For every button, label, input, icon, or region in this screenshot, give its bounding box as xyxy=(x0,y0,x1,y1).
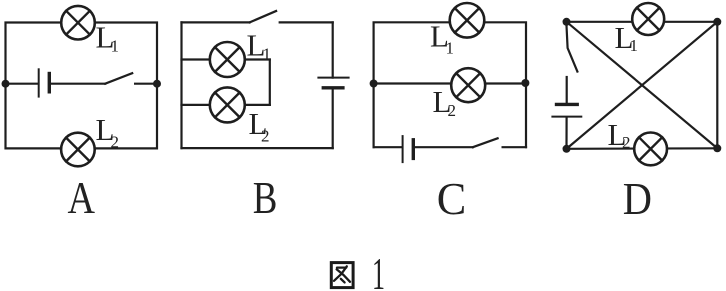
wire: C battery to switch xyxy=(415,146,473,148)
wire: B lower lamp branch xyxy=(182,104,270,106)
switch S (circuit B, open) xyxy=(250,11,333,22)
wire: circuit C outer rectangle top/left/right xyxy=(374,22,526,147)
battery GB (circuit C) xyxy=(403,136,414,162)
wire: B right side upper xyxy=(332,22,334,77)
node: D top-right junction xyxy=(713,18,721,26)
wire: D battery top lead xyxy=(566,77,568,104)
lamp L2 (circuit B) xyxy=(210,87,245,122)
svg-text:1: 1 xyxy=(263,45,272,64)
label L2 (circuit B) xyxy=(249,106,270,146)
switch S (circuit D, open) xyxy=(566,24,577,72)
label L2 (circuit A) xyxy=(96,112,120,152)
svg-text:C: C xyxy=(437,173,467,224)
label L2 (circuit C) xyxy=(433,84,457,120)
svg-text:2: 2 xyxy=(111,133,120,152)
battery GB (circuit A) xyxy=(39,69,50,96)
wire: circuit B left side xyxy=(180,22,182,148)
wire: D right side xyxy=(716,22,718,149)
svg-text:B: B xyxy=(253,172,278,223)
node: A left junction xyxy=(2,80,10,88)
wire: C bottom left lead xyxy=(374,146,402,148)
battery GB (circuit D) xyxy=(552,104,581,116)
svg-text:1: 1 xyxy=(446,38,455,57)
svg-text:1: 1 xyxy=(111,37,120,56)
node: C left junction xyxy=(370,80,378,88)
wire: circuit A outer rectangle xyxy=(6,23,158,149)
svg-text:1: 1 xyxy=(630,36,639,55)
lamp L1 (circuit D) xyxy=(632,3,664,35)
switch S (circuit A, open) xyxy=(105,73,157,84)
battery GB (circuit B) xyxy=(318,78,348,88)
svg-text:2: 2 xyxy=(448,101,457,120)
label L1 (circuit A) xyxy=(96,19,120,55)
lamp L1 (circuit A) xyxy=(61,6,95,40)
svg-text:1: 1 xyxy=(372,248,385,291)
label L1 (circuit D) xyxy=(615,20,639,55)
wire: D diagonal top-right to bottom-left xyxy=(567,22,718,149)
label: caption digit 1 xyxy=(372,248,385,291)
node: D bottom-right junction xyxy=(713,144,721,152)
label: option letter A xyxy=(68,172,96,223)
label L2 (circuit D) xyxy=(608,117,631,152)
label: option letter B xyxy=(253,172,278,223)
lamp L1 (circuit B) xyxy=(210,42,245,77)
wire: B branch join vertical xyxy=(269,60,271,105)
wire: B bottom side xyxy=(182,147,333,149)
wire: D battery bottom lead xyxy=(565,118,567,149)
wire: C middle branch xyxy=(374,82,526,84)
label: option letter D xyxy=(623,173,652,224)
lamp L2 (circuit A) xyxy=(61,133,95,167)
wire: B top left segment xyxy=(182,21,250,23)
lamp L2 (circuit D) xyxy=(634,133,667,166)
node: C right junction xyxy=(521,79,529,87)
wire: A middle branch left lead xyxy=(6,83,39,85)
node: D bottom-left junction xyxy=(563,145,571,153)
wire: B upper lamp branch xyxy=(182,58,270,60)
wire: D bottom side xyxy=(567,147,718,150)
label L1 (circuit B) xyxy=(247,28,272,64)
wire: D diagonal top-left to bottom-right xyxy=(567,22,718,149)
wire: circuit D top side xyxy=(567,21,718,23)
node: D top-left junction xyxy=(563,18,571,26)
label L1 (circuit C) xyxy=(430,18,454,57)
node: A right junction xyxy=(153,80,161,88)
wire: B right side lower xyxy=(332,88,334,148)
wire: A battery to switch xyxy=(51,83,106,85)
label: caption character 图 (drawn) xyxy=(331,263,353,288)
label: option letter C xyxy=(437,173,467,224)
switch S (circuit C, open) xyxy=(473,138,526,147)
lamp L1 (circuit C) xyxy=(450,3,485,38)
svg-text:D: D xyxy=(623,173,652,224)
lamp L2 (circuit C) xyxy=(451,68,485,102)
svg-text:2: 2 xyxy=(261,127,270,146)
svg-text:A: A xyxy=(68,172,96,223)
svg-text:2: 2 xyxy=(622,133,631,152)
